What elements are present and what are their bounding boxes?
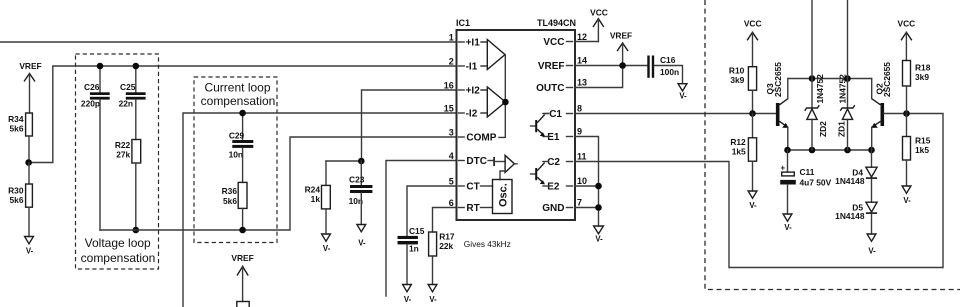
svg-text:VCC: VCC: [590, 8, 608, 18]
svg-text:10: 10: [577, 176, 587, 186]
resistor R10: [729, 65, 757, 113]
resistor R36: [222, 182, 247, 230]
resistor R15: [902, 114, 931, 206]
svg-text:220p: 220p: [81, 98, 100, 108]
svg-text:ZD1: ZD1: [837, 121, 847, 137]
svg-text:C29: C29: [229, 131, 245, 141]
svg-text:4u7 50V: 4u7 50V: [800, 177, 832, 187]
svg-text:7: 7: [577, 198, 582, 208]
svg-text:4: 4: [449, 151, 454, 161]
svg-text:V-: V-: [429, 295, 437, 304]
wire pin1 net from left edge to IC pin 1: [0, 41, 457, 43]
svg-text:V-: V-: [323, 244, 331, 253]
pin 14 stub/label VREF: [538, 56, 587, 73]
node: VREF/OUTC junction: [619, 62, 626, 69]
wire pin 13 OUTC up to VREF junction: [575, 66, 623, 88]
svg-text:C16: C16: [660, 55, 676, 65]
svg-text:R36: R36: [222, 186, 238, 196]
svg-text:R30: R30: [8, 185, 24, 195]
svg-text:E1: E1: [547, 132, 560, 143]
wire pin 11 C2 net loop to Q2 base divider: [575, 114, 943, 268]
svg-text:8: 8: [577, 104, 582, 114]
op-amp U1 IC box TL494CN: [457, 30, 576, 220]
svg-text:+I1: +I1: [466, 38, 481, 49]
resistor R17: [428, 231, 455, 303]
svg-text:22n: 22n: [119, 98, 133, 108]
svg-text:V-: V-: [749, 201, 757, 210]
svg-text:15: 15: [444, 104, 454, 114]
pin 1 stub/label: [449, 33, 480, 49]
svg-text:TL494CN: TL494CN: [537, 18, 576, 28]
svg-text:compensation: compensation: [81, 251, 156, 265]
pin 6 stub/label: [449, 198, 493, 214]
svg-text:Voltage loop: Voltage loop: [85, 236, 151, 250]
transistor Q3 2SC2655: [765, 62, 788, 150]
svg-text:C15: C15: [409, 226, 425, 236]
svg-text:R22: R22: [115, 140, 131, 150]
wire pin 7 GND: [575, 207, 599, 209]
svg-text:VREF: VREF: [610, 30, 632, 40]
node: C26 top junction: [97, 63, 104, 70]
node: R36 bottom junction on COMP rail: [239, 227, 246, 234]
wire pin4 DTC net down to bottom: [386, 161, 457, 297]
svg-text:R34: R34: [8, 114, 24, 124]
dashed box: current loop compensation: [194, 77, 277, 243]
wire pin 9 E1 down the emitter/ground rail: [575, 137, 599, 227]
wire pin2 net: R34/R30 junction up and right to IC pin 2: [29, 66, 457, 163]
svg-text:-I1: -I1: [466, 62, 478, 73]
svg-text:5: 5: [449, 177, 454, 187]
svg-text:VCC: VCC: [543, 37, 564, 48]
node: Q2 base / R18 / R15 junction: [903, 110, 910, 117]
transistor Q2 2SC2655: [871, 62, 906, 150]
svg-text:VREF: VREF: [19, 61, 41, 71]
wire pin5 CT net: [407, 186, 457, 236]
pin 9 stub/label E1: [543, 127, 582, 144]
svg-text:2SC2655: 2SC2655: [773, 62, 783, 97]
svg-text:Current loop: Current loop: [204, 81, 270, 95]
svg-text:1N4148: 1N4148: [835, 176, 865, 186]
wire pin 14 VREF net: [575, 65, 647, 67]
svg-text:R12: R12: [730, 137, 746, 147]
node: R10/R12/pin8 junction: [749, 110, 756, 117]
svg-text:2: 2: [449, 57, 454, 67]
svg-text:VCC: VCC: [898, 19, 916, 29]
capacitor C25: [119, 66, 146, 140]
resistor R22: [115, 140, 141, 231]
svg-text:E2: E2: [547, 182, 560, 193]
diode D5 1N4148: [835, 202, 877, 255]
svg-text:1n: 1n: [409, 243, 419, 253]
capacitor C29: [229, 113, 254, 182]
diode D4 1N4148: [835, 150, 877, 202]
svg-text:V-: V-: [26, 247, 34, 256]
node VCC above R18: [898, 19, 916, 61]
node: E2 junction: [595, 183, 602, 190]
svg-text:3k9: 3k9: [730, 75, 744, 85]
svg-text:R24: R24: [305, 185, 321, 195]
svg-text:IC1: IC1: [456, 18, 470, 28]
svg-text:3k9: 3k9: [915, 72, 929, 82]
svg-text:14: 14: [577, 56, 587, 66]
svg-text:C23: C23: [349, 174, 365, 184]
svg-text:10n: 10n: [229, 150, 243, 160]
node: rail dots: [809, 75, 816, 82]
svg-text:3: 3: [449, 128, 454, 138]
svg-text:1: 1: [449, 33, 454, 43]
svg-text:5k6: 5k6: [10, 195, 24, 205]
svg-text:27k: 27k: [116, 150, 130, 160]
svg-text:1N4752: 1N4752: [815, 74, 825, 104]
pin 12 stub/label VCC: [543, 32, 587, 48]
pin 8 stub/label C1: [543, 104, 582, 121]
svg-text:1N4752: 1N4752: [838, 74, 848, 104]
svg-text:11: 11: [577, 152, 587, 162]
node VREF (left rail symbol): [19, 61, 41, 113]
svg-text:+I2: +I2: [466, 86, 481, 97]
svg-text:V-: V-: [868, 247, 876, 256]
zener ZD1 1N4752: [837, 0, 855, 150]
svg-text:R18: R18: [915, 63, 931, 73]
capacitor C15: [398, 226, 425, 304]
pin 3 stub/label: [449, 128, 497, 144]
Osc. box inside IC: [493, 180, 513, 214]
dashed box: voltage loop compensation: [76, 54, 159, 269]
pin 10 stub/label E2: [543, 176, 587, 193]
svg-text:Gives 43kHz: Gives 43kHz: [464, 239, 511, 249]
resistor R24: [305, 161, 362, 253]
node: GND junction: [595, 204, 602, 211]
svg-text:R15: R15: [915, 136, 931, 146]
pin 16 stub/label: [444, 81, 480, 97]
transistor T2 inside IC (C2/E2): [531, 163, 545, 185]
pin 15 stub/label: [444, 104, 478, 120]
op-amp error amp 2 inside IC: [481, 87, 506, 117]
svg-text:VREF: VREF: [538, 61, 565, 72]
svg-text:1k: 1k: [311, 194, 321, 204]
svg-text:C26: C26: [84, 82, 100, 92]
svg-text:Osc.: Osc.: [498, 183, 510, 207]
svg-text:22k: 22k: [439, 241, 453, 251]
transistor T1 inside IC (C1/E1): [531, 114, 549, 137]
svg-text:V-: V-: [679, 92, 687, 101]
dashed border of driver section: [705, 0, 960, 290]
wire pin 10 E2: [575, 185, 599, 187]
svg-text:VREF: VREF: [231, 253, 253, 263]
svg-text:C1: C1: [549, 109, 562, 120]
pin 13 stub/label OUTC: [536, 78, 587, 95]
resistor R18: [903, 61, 931, 114]
node: op-amp output junction: [502, 99, 509, 106]
op-amp error amp 1 inside IC: [481, 40, 505, 70]
wire bottom emitter rail: [788, 149, 872, 151]
svg-text:V-: V-: [404, 295, 412, 304]
resistor R30: [8, 163, 32, 237]
svg-text:CT: CT: [466, 182, 479, 193]
svg-text:compensation: compensation: [201, 94, 276, 108]
svg-text:R10: R10: [729, 65, 745, 75]
svg-text:100n: 100n: [660, 67, 679, 77]
svg-text:V-: V-: [358, 239, 366, 248]
node VREF (stub below current loop box, off-page resistor): [231, 253, 253, 307]
capacitor C16: [647, 55, 687, 101]
resistor R34: [8, 113, 32, 163]
svg-text:13: 13: [577, 78, 587, 88]
node: C29 top junction on pin15 wire: [239, 110, 246, 117]
svg-text:C2: C2: [547, 157, 560, 168]
node VREF above pin 14: [610, 30, 632, 65]
node A junction R34/R30: [25, 159, 32, 166]
svg-text:6: 6: [449, 198, 454, 208]
ground V- below GND: [594, 226, 604, 243]
svg-text:OUTC: OUTC: [536, 83, 564, 94]
svg-text:COMP: COMP: [466, 133, 496, 144]
svg-text:+: +: [781, 164, 786, 173]
capacitor C23: [349, 161, 373, 248]
capacitor C11 electrolytic: [780, 150, 831, 232]
svg-text:R17: R17: [439, 231, 455, 241]
svg-text:5k6: 5k6: [10, 123, 24, 133]
svg-text:ZD2: ZD2: [818, 121, 828, 137]
pin 4 stub/label: [449, 151, 487, 167]
wire COMP rail to pin 3: [100, 137, 457, 230]
wire pin6 RT net: [433, 208, 457, 233]
svg-text:V-: V-: [595, 234, 603, 243]
wire top rail (Q3/ZD2/ZD1/Q2 collectors): [788, 78, 872, 80]
svg-text:-I2: -I2: [466, 109, 478, 120]
svg-text:RT: RT: [466, 203, 479, 214]
svg-text:16: 16: [444, 81, 454, 91]
wire pin16 net: [362, 90, 457, 161]
svg-text:C11: C11: [800, 167, 815, 177]
svg-text:2SC2655: 2SC2655: [882, 62, 892, 97]
pin 5 stub/label: [449, 177, 493, 193]
svg-text:V-: V-: [903, 196, 911, 205]
ground V- below R30: [25, 237, 34, 256]
svg-text:12: 12: [577, 32, 587, 42]
capacitor C26: [81, 66, 110, 230]
svg-text:5k6: 5k6: [223, 196, 237, 206]
wire pin 8 C1 net to Q3 base: [575, 113, 776, 115]
pin 7 stub/label GND: [542, 198, 582, 215]
wire pin 12 to VCC: [575, 41, 598, 43]
node: C25 top junction: [133, 63, 140, 70]
svg-text:DTC: DTC: [466, 156, 487, 167]
DTC comparator inside IC: [488, 155, 517, 179]
pin 11 stub/label C2: [543, 152, 587, 169]
zener ZD2 1N4752: [805, 0, 828, 150]
resistor R12: [730, 114, 757, 211]
svg-text:GND: GND: [542, 203, 564, 214]
node VCC above R10: [744, 19, 762, 67]
svg-text:V-: V-: [784, 223, 792, 232]
node VCC above pin 12: [590, 8, 608, 42]
node: R24/C23/pin16 junction: [358, 158, 365, 165]
node: C25/R22 bottom junction on COMP rail: [133, 227, 140, 234]
pin 2 stub/label: [449, 57, 478, 73]
svg-text:1k5: 1k5: [915, 145, 929, 155]
svg-text:VCC: VCC: [744, 19, 762, 29]
wire op-amp outputs to COMP: [499, 55, 505, 138]
svg-text:9: 9: [577, 127, 582, 137]
svg-text:C25: C25: [120, 82, 136, 92]
svg-text:1N4148: 1N4148: [835, 211, 865, 221]
wire pin15 net: from bottom edge up and right to IC pin 15: [183, 113, 457, 307]
svg-text:1k5: 1k5: [732, 146, 746, 156]
